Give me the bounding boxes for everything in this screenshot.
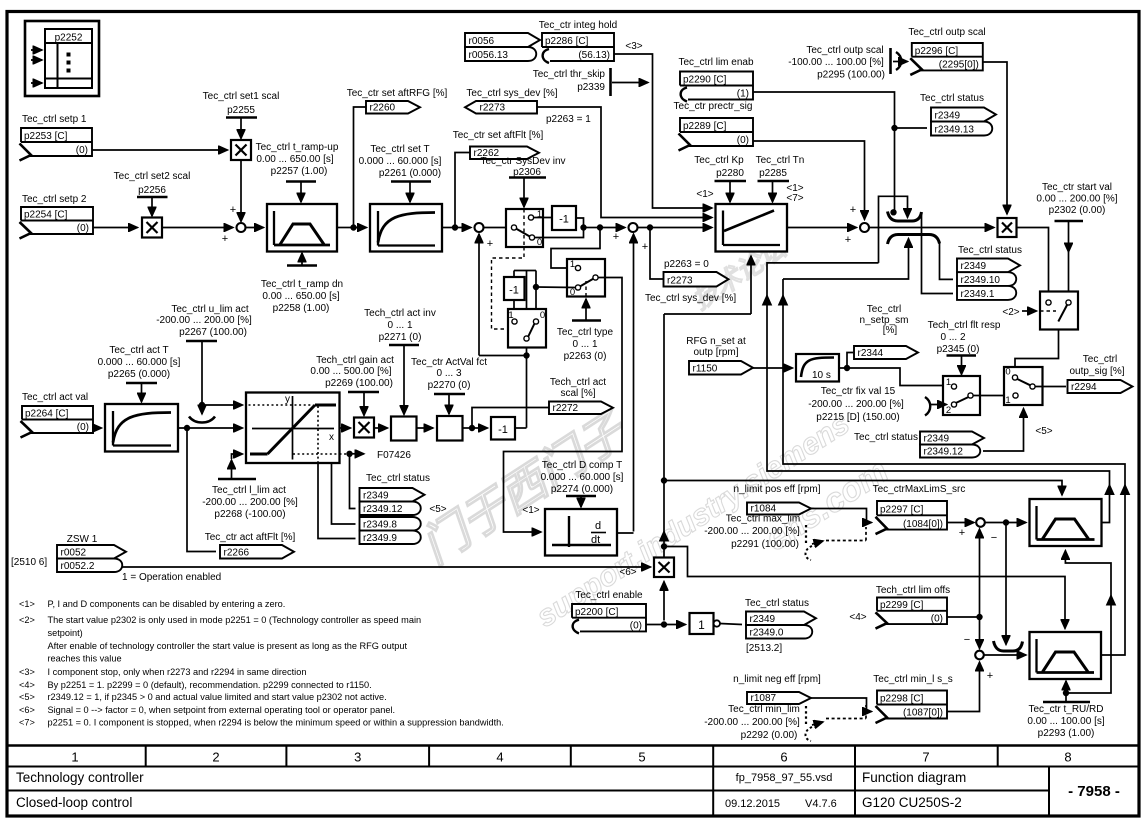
summing junction sum4 [860,223,869,232]
wire limiter output to gain multiplier [340,427,351,429]
wire 0 chain to type switch contact 0 [536,286,576,289]
svg-text:7: 7 [922,750,929,765]
svg-text:r2266: r2266 [224,548,250,559]
switch output select [1004,367,1043,405]
connector input p2289 [C] (0) [680,118,753,146]
svg-text:p2255: p2255 [227,105,255,116]
switch start value [1040,292,1078,330]
wire operation enabled to X4 [119,566,651,568]
svg-text:−: − [991,532,997,544]
svg-text:+: + [230,204,236,216]
wire p2255 into multiplier [240,118,242,139]
wire to -1 inverter [472,427,488,429]
svg-text:r0056.13: r0056.13 [469,50,509,61]
function block p2252 overview symbol [25,21,99,96]
wire switch contact 0 bypass [535,230,584,238]
svg-text:r2349.12: r2349.12 [363,504,403,515]
wire u_lim into limiter top input [202,404,243,406]
wire p2339 arrow [612,82,648,84]
connector output r1150 [689,361,753,375]
svg-text:0 ... 1: 0 ... 1 [387,320,412,331]
connector output r2349 middle [957,259,1020,273]
svg-text:r2349: r2349 [363,491,389,502]
svg-text:p2257 (1.00): p2257 (1.00) [271,166,328,177]
wire X3 to act inv box [374,427,388,429]
wire p2289 to sum4 top [753,141,865,220]
svg-text:-1: -1 [559,214,569,226]
svg-text:-200.00 ... 200.00 [%]: -200.00 ... 200.00 [%] [202,497,298,508]
wire tap to r2349.13 [895,127,928,129]
threshold bar p2339 [609,68,612,96]
svg-text:d: d [595,520,601,532]
svg-text:Tech_ctrl act inv: Tech_ctrl act inv [364,308,436,319]
svg-text:r2349.0: r2349.0 [750,628,784,639]
connector output r2294 [1068,380,1133,393]
connector output r0056 [465,33,540,47]
wire max limit into upper horn [879,196,908,263]
watermark [412,232,895,634]
wire lim offs down to sum6 [979,617,981,649]
connector output r2349.9 [360,531,421,545]
svg-text:0.00 ... 650.00 [s]: 0.00 ... 650.00 [s] [256,154,333,165]
svg-text:Tec_ctrl act T: Tec_ctrl act T [109,345,168,356]
svg-text:G120 CU250S-2: G120 CU250S-2 [862,795,962,810]
connector output r2273 sys_dev [664,272,729,287]
svg-text:p2274 (0.000): p2274 (0.000) [551,484,613,495]
svg-text:After enable of technology con: After enable of technology controller th… [48,641,408,651]
connector output r2349 upper [931,108,996,122]
svg-text:(1): (1) [737,89,749,100]
connector output r2272 [549,402,613,415]
wire -1 lower top connection [513,271,515,278]
svg-text:Tec_ctrl t_ramp-up: Tec_ctrl t_ramp-up [256,142,339,153]
svg-text:Tec_ctr set aftRFG [%]: Tec_ctr set aftRFG [%] [347,88,448,99]
svg-text:<2>: <2> [19,615,35,625]
wire PID output to sum4 [787,227,857,229]
connector input p2296 [C] (2295[0]) [912,43,983,70]
svg-text:Tec_ctrl min_l s_s: Tec_ctrl min_l s_s [873,674,952,685]
min funnel upper horn [994,641,1023,651]
svg-text:Tec_ctrl thr_skip: Tec_ctrl thr_skip [533,69,606,80]
svg-text:Tec_ctrl enable: Tec_ctrl enable [575,590,643,601]
svg-text:Technology controller: Technology controller [16,770,144,785]
svg-text:p2298 [C]: p2298 [C] [880,694,924,705]
connector input p2290 [C] (1) [680,72,753,100]
svg-text:F07426: F07426 [377,450,411,461]
svg-text:1 = Operation enabled: 1 = Operation enabled [122,572,221,583]
svg-text:0.00 ... 650.00 [s]: 0.00 ... 650.00 [s] [262,291,339,302]
svg-text:r1150: r1150 [693,364,718,375]
svg-text:r2349: r2349 [961,261,987,272]
svg-text:outp [rpm]: outp [rpm] [693,347,738,358]
setpoint smoothing filter block PT1 [370,204,442,252]
svg-text:Tec_ctr ActVal fct: Tec_ctr ActVal fct [411,357,487,368]
connector output r2349 left [360,488,425,502]
svg-text:Closed-loop control: Closed-loop control [16,795,132,810]
switch SysDev inv p2306 [506,209,543,247]
wire max RFG output loop to upper horn [767,263,1110,523]
svg-text:<1>: <1> [696,189,713,200]
wire tap up to r2262 [455,153,470,228]
wire tap to r2344 [847,353,853,369]
wire p2263 into type switch [585,299,587,321]
svg-text:Tec_ctrl status: Tec_ctrl status [854,432,918,443]
svg-text:By p2251 = 1. p2299 = 0 (defau: By p2251 = 1. p2299 = 0 (default), recom… [48,680,372,690]
wire r1084 to p2297 [811,509,872,523]
wire p2286 to PID top input [614,54,712,208]
svg-text:Tec_ctrl: Tec_ctrl [1083,354,1117,365]
summing junction sum2 setpoint minus actual [475,223,484,232]
multiplier X4 enable [654,558,674,578]
accept hook p2295 [896,52,901,70]
junction node p2293 [1063,690,1068,695]
svg-text:p2297 [C]: p2297 [C] [880,505,924,516]
wire filter to limiter [178,427,243,429]
svg-text:5: 5 [638,750,645,765]
svg-text:r1087: r1087 [751,693,777,704]
svg-text:0: 0 [570,287,575,298]
svg-text:<1>: <1> [522,505,539,516]
svg-text:p2299 [C]: p2299 [C] [880,600,924,611]
junction node r2272 tap [469,425,474,430]
wire limit status to r2349.8 [332,463,356,524]
svg-text:r2349.1: r2349.1 [961,289,995,300]
connector output r2262 [470,147,539,160]
svg-text:Tec_ctrl set T: Tec_ctrl set T [370,144,429,155]
svg-text:reaches this value: reaches this value [48,654,122,664]
svg-text:1: 1 [570,259,575,270]
svg-text:r2294: r2294 [1071,382,1097,393]
differentiator block d/dt [545,509,617,556]
svg-text:2: 2 [212,750,219,765]
connector output r2349.1 [957,286,1016,300]
wire output switch to r2294 [1036,386,1067,388]
wire response switch output [974,395,1013,397]
svg-text:ZSW 1: ZSW 1 [67,534,98,545]
ramp-function generator RFG block [267,204,337,252]
svg-text:Tec_ctr integ hold: Tec_ctr integ hold [539,20,617,31]
svg-text:p2271 (0): p2271 (0) [379,332,422,343]
wire p2267 down to limiter [201,341,203,405]
svg-text:+: + [845,234,851,246]
wire p2200 to inverter [646,624,686,626]
svg-text:r2349: r2349 [924,434,950,445]
connector input p2264 [C] (0) [22,406,93,433]
svg-text:p2256: p2256 [138,185,166,196]
svg-text:I component stop, only when r2: I component stop, only when r2273 and r2… [48,667,307,677]
wire p2268 into limiter lower input [231,460,233,479]
svg-text:-200.00 ... 200.00 [%]: -200.00 ... 200.00 [%] [808,399,904,410]
wire min RFG output loop to lower horn [783,279,1125,655]
limit cup symbol [201,405,203,414]
wire sum4 to output scaling multiplier [869,227,994,229]
svg-text:+: + [850,204,856,216]
svg-text:Tec_ctr t_RU/RD: Tec_ctr t_RU/RD [1028,704,1103,715]
svg-text:0: 0 [537,237,542,248]
dashed alternative source p2291 [805,525,807,545]
svg-text:p2268 (-100.00): p2268 (-100.00) [214,509,285,520]
svg-text:<2>: <2> [1002,307,1019,318]
svg-text:p2265 (0.000): p2265 (0.000) [108,369,170,380]
svg-text:Tec_ctrl: Tec_ctrl [867,304,901,315]
connector output r1084 [747,503,811,515]
svg-text:p2263 = 1: p2263 = 1 [546,114,591,125]
connector input p2298 [C] (1087[0]) [877,691,947,719]
wire -1 lower to switch contact 1 [513,300,515,320]
svg-text:p2289 [C]: p2289 [C] [683,121,727,132]
wire tap down to r2266 [187,428,216,552]
svg-text:(0): (0) [76,145,88,156]
p2252 block input arrows [31,49,42,51]
connector p2253 [C] (0) [21,128,92,156]
svg-text:outp_sig [%]: outp_sig [%] [1069,366,1124,377]
wire X4 bottom input from enable [663,582,665,621]
svg-text:p2253 [C]: p2253 [C] [24,131,68,142]
wire inversion cluster top link [514,270,536,272]
svg-text:p2215 [D] (150.00): p2215 [D] (150.00) [816,412,899,423]
svg-text:Tec_ctr fix val 15: Tec_ctr fix val 15 [821,386,896,397]
switch act inversion [508,309,546,348]
svg-text:-200.00 ... 200.00 [%]: -200.00 ... 200.00 [%] [704,526,800,537]
wire p2215 into contact 2 [930,404,947,406]
svg-text:p2291 (100.00): p2291 (100.00) [731,539,799,550]
svg-text:+: + [487,238,493,250]
svg-text:Tec_ctrl act val: Tec_ctrl act val [22,392,88,403]
svg-text:r0052: r0052 [61,548,87,559]
svg-text:Tec_ctrl Kp: Tec_ctrl Kp [694,155,744,166]
svg-text:fp_7958_97_55.vsd: fp_7958_97_55.vsd [736,772,833,784]
wire p2306 into switch top [523,177,525,207]
wire p2345 into response switch [961,356,963,375]
svg-text:Tec_ctr SysDev inv: Tec_ctr SysDev inv [480,156,565,167]
wire p2293 into min RFG bottom [1065,681,1067,702]
wire X4 output rising [663,314,665,558]
PID controller block [716,204,788,252]
svg-text:Tec_ctrl Tn: Tec_ctrl Tn [756,155,805,166]
multiplier X2 setp2 scaling [142,218,162,238]
wire p2298 output to sum6 [947,662,980,712]
svg-text:p2264 [C]: p2264 [C] [25,409,69,420]
wire p2295 into p2296 connector [893,61,908,63]
svg-text:<3>: <3> [19,667,35,677]
svg-text:(0): (0) [737,135,749,146]
junction node lim offs [977,614,982,619]
junction node enable [661,622,666,627]
wire sum5 output to max RFG [985,522,1026,524]
dashed control line p2306 [523,209,525,246]
svg-text:(0): (0) [931,613,943,624]
svg-text:0.000 ... 60.000 [s]: 0.000 ... 60.000 [s] [98,357,181,368]
svg-text:Tec_ctrl status: Tec_ctrl status [745,598,809,609]
connector output r2349.12 fixval [920,445,980,458]
svg-text:Tec_ctrl type: Tec_ctrl type [557,327,614,338]
svg-text:r2349: r2349 [750,614,776,625]
logic block 1 inverter [690,613,714,634]
svg-text:8: 8 [1064,750,1071,765]
svg-text:Tec_ctrl l_lim act: Tec_ctrl l_lim act [212,485,286,496]
svg-text:Tec_ctrl sys_dev [%]: Tec_ctrl sys_dev [%] [645,293,736,304]
wire upper horn to status r2349.1 [922,213,954,294]
svg-text:p2269 (100.00): p2269 (100.00) [325,378,393,389]
wire X2 to summing point sum1 [162,227,233,229]
junction node r2266 tap [184,425,189,430]
svg-text:-1: -1 [509,285,519,297]
wire p2302 into start switch [1068,221,1070,252]
wire lim offs up to sum5 [979,529,981,617]
svg-text:1: 1 [537,209,542,220]
dashed control line p2345 [961,376,963,392]
svg-text:0 ... 1: 0 ... 1 [572,339,597,350]
svg-text:4: 4 [496,750,503,765]
svg-text:Tec_ctrl u_lim act: Tec_ctrl u_lim act [171,304,248,315]
junction node X4 out upper [661,478,666,483]
wire actual value into sum2 from below [478,234,480,356]
wire act net vertical [526,271,528,337]
wire lower horn to status r2349.10 [940,242,954,279]
wire p2271 into act inv box [403,345,405,415]
svg-text:r0056: r0056 [469,36,495,47]
multiplier X3 gain [354,418,374,438]
limiter lower horn [888,235,940,245]
multiplier X5 output scaling [998,218,1017,237]
svg-text:p2261 (0.000): p2261 (0.000) [379,168,441,179]
connector output r2349.12 left [360,502,421,516]
svg-text:0.00 ... 100.00 [s]: 0.00 ... 100.00 [s] [1027,716,1104,727]
wire ActVal fct output [463,427,471,429]
svg-text:0 ... 3: 0 ... 3 [436,368,461,379]
svg-text:0.00 ... 200.00 [%]: 0.00 ... 200.00 [%] [1036,194,1117,205]
svg-text:Tec_ctrl t_ramp dn: Tec_ctrl t_ramp dn [261,279,343,290]
svg-text:(1084[0]): (1084[0]) [903,519,943,530]
wire sum3 output to PID [638,227,713,229]
summing junction sum6 min limit [975,651,984,660]
wire p2256 into multiplier X2 [151,197,153,216]
svg-text:RFG n_set at: RFG n_set at [686,336,746,347]
inverter block -1 upper [552,206,576,230]
svg-text:Tec_ctrl status: Tec_ctrl status [366,473,430,484]
function box ActVal fct [437,416,463,441]
junction node p2290 r2349.13 tap [892,125,897,130]
svg-text:2: 2 [946,405,951,416]
svg-text:Signal = 0 --> factor = 0, whe: Signal = 0 --> factor = 0, when setpoint… [48,705,396,715]
svg-text:<5>: <5> [19,692,35,702]
svg-text:p2251 = 0. I component is stop: p2251 = 0. I component is stopped, when … [48,718,504,728]
wire p2285 into PID [772,181,774,202]
svg-text:<3>: <3> [625,41,642,52]
wire branch to min RFG set input [664,547,1065,629]
connector input p2297 [C] (1084[0]) [877,501,947,530]
svg-text:09.12.2015: 09.12.2015 [725,798,780,810]
junction node lim enab at horn [891,210,896,215]
svg-text:<6>: <6> [619,567,636,578]
inverter block -1 act [491,417,515,440]
junction node branch to type switch [597,225,602,230]
svg-text:Tec_ctrl status: Tec_ctrl status [920,93,984,104]
wire d/dt output up to sum3 [617,532,634,534]
svg-text:r2349.9: r2349.9 [363,533,397,544]
wire X5 to start value switch [1017,228,1049,300]
connector output r2349.0 [746,625,812,639]
dashed control line start switch [1040,310,1056,312]
ramp limiter block min [1030,632,1102,679]
dashed control line p2263 [585,281,587,297]
connector input r2273 left-pointing [465,101,537,114]
wire type switch output down to D component [504,278,623,533]
svg-text:p2302 (0.00): p2302 (0.00) [1049,205,1106,216]
svg-text:Tech_ctrl flt resp: Tech_ctrl flt resp [928,320,1001,331]
svg-text:Tec_ctrl set2 scal: Tec_ctrl set2 scal [114,171,191,182]
wire p2269 into gain multiplier [363,392,365,416]
svg-text:Tech_ctrl lim offs: Tech_ctrl lim offs [876,585,950,596]
svg-text:+: + [613,231,619,243]
wire X1 to summing point [240,160,242,222]
svg-text:p2286 [C]: p2286 [C] [545,36,589,47]
junction node max path [1003,520,1008,525]
svg-text:Tec_ctrl set1 scal: Tec_ctrl set1 scal [203,91,280,102]
svg-text:3: 3 [354,750,361,765]
wire tap down to r2273 output [650,228,663,280]
dashed alternative source p2292 [805,706,807,726]
svg-text:Tec_ctrl outp scal: Tec_ctrl outp scal [908,27,985,38]
limiter block with y x characteristic [246,393,340,464]
ramp limiter block max [1030,499,1102,546]
wire tap up to r2260 [354,107,367,228]
svg-text:r2349.8: r2349.8 [363,520,397,531]
wire D component into sum3 [633,234,635,532]
connector input p2200 [C] (0) [572,604,646,631]
svg-text:dt: dt [591,534,600,546]
multiplier X1 setp1 scaling [231,140,251,160]
svg-text:Tec_ctr prectr_sig: Tec_ctr prectr_sig [674,101,753,112]
svg-text:r2349.12: r2349.12 [924,447,964,458]
svg-text:(0): (0) [77,223,89,234]
svg-text:V4.7.6: V4.7.6 [805,798,837,810]
svg-text:[2510 6]: [2510 6] [11,557,47,568]
svg-text:1: 1 [71,750,78,765]
wire 0 contact chain vertical [535,271,537,320]
svg-text:Tec_ctrl status: Tec_ctrl status [958,245,1022,256]
svg-text:p2292 (0.00): p2292 (0.00) [741,730,798,741]
svg-text:(56.13): (56.13) [578,50,610,61]
connector output r0056.13 [465,47,536,61]
wire RFG output to filter [337,227,352,229]
svg-text:The start value p2302 is only: The start value p2302 is only used in mo… [48,615,422,625]
svg-text:r2344: r2344 [858,348,884,359]
svg-text:+: + [222,233,228,245]
svg-text:r2349: r2349 [935,111,961,122]
svg-text:setpoint): setpoint) [48,628,83,638]
svg-text:p2252: p2252 [55,33,83,44]
svg-text:r2349.10: r2349.10 [961,275,1001,286]
svg-text:Tec_ctrl max_lim: Tec_ctrl max_lim [726,514,800,525]
wire inverter to status [720,624,742,625]
wire act net to sum2 [479,355,527,357]
wire act inv to ActVal fct box [417,427,434,429]
wire r1087 to p2298 [811,698,872,712]
summing junction sum3 [629,223,638,232]
wire min limit into lower horn [783,239,909,280]
svg-text:r2273: r2273 [480,103,506,114]
junction node u_lim [199,402,204,407]
junction node r2262 tap [452,225,457,230]
actual value smoothing filter PT1 [105,404,178,452]
svg-text:(0): (0) [77,422,89,433]
svg-text:<7>: <7> [19,718,35,728]
svg-text:p2296 [C]: p2296 [C] [915,46,959,57]
wire r2349.12 to output switch [983,409,1024,452]
wire sum6 output to min RFG [984,654,1026,656]
svg-text:scal [%]: scal [%] [560,388,595,399]
